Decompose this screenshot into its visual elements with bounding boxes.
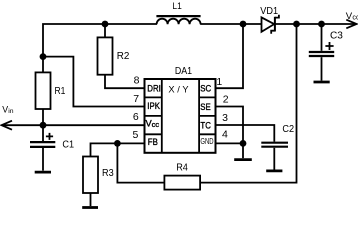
svg-text:DRI: DRI (147, 83, 161, 94)
svg-text:3: 3 (222, 112, 228, 124)
svg-text:IPK: IPK (147, 100, 160, 111)
resistor R1 (36, 57, 51, 126)
svg-text:X/Y: X/Y (168, 85, 191, 95)
wire pin 3 TC to C2 (216, 125, 275, 142)
IC left column separator (161, 79, 163, 153)
label Vcc (top right) (346, 11, 358, 22)
IC pin labels left (147, 83, 161, 148)
svg-text:R2: R2 (117, 51, 130, 62)
svg-text:7: 7 (133, 93, 139, 105)
svg-text:C1: C1 (62, 139, 74, 151)
label Vin (2, 105, 14, 116)
wire L1 to VD1 (200, 23, 261, 25)
IC left cell dividers (145, 97, 162, 134)
svg-text:SC: SC (200, 83, 211, 94)
svg-text:1: 1 (216, 76, 222, 88)
C3 plus sign (325, 42, 333, 50)
C1 plus sign (46, 133, 53, 140)
IC right cell dividers (199, 97, 215, 134)
wire VD1 to Vcc arrow (275, 23, 356, 25)
ground (pin 4) (234, 158, 252, 161)
resistor R2 (98, 24, 145, 88)
svg-text:R1: R1 (55, 85, 66, 97)
node junction Vin/R1/C1 (40, 122, 47, 129)
ground (C1) (35, 171, 51, 174)
svg-text:GND: GND (200, 138, 213, 146)
svg-text:FB: FB (148, 136, 158, 147)
svg-text:C2: C2 (282, 123, 294, 135)
node junction R2 top (102, 21, 109, 28)
resistor R3 (83, 157, 98, 207)
svg-text:C3: C3 (330, 30, 343, 41)
svg-text:R4: R4 (176, 162, 188, 174)
svg-text:in: in (8, 108, 14, 115)
node junction R1 top (40, 53, 47, 60)
resistor R4 (164, 176, 200, 190)
ground (R3) (82, 206, 98, 209)
IC right column separator (198, 79, 200, 153)
wire FB line pin 5 to R3 (91, 143, 145, 156)
ground (C3) (314, 81, 330, 84)
wire pin 4 GND (216, 142, 244, 144)
wire Vin rail to pin 6 (3, 124, 145, 126)
svg-text:TC: TC (200, 120, 210, 131)
svg-text:VD1: VD1 (260, 6, 278, 18)
svg-text:6: 6 (133, 111, 139, 123)
wire R1-junction to IPK pin 7 (43, 57, 145, 107)
capacitor C1 (electrolytic) (30, 125, 55, 170)
node junction L1/VD1/pin1 (240, 21, 247, 28)
IC label Vcc pin 6 (146, 119, 160, 129)
svg-text:L1: L1 (172, 0, 181, 11)
svg-text:cc: cc (352, 12, 358, 21)
svg-text:SE: SE (200, 101, 211, 112)
IC DA1 outline (145, 79, 216, 153)
node junction pin4/pin2/gnd (240, 140, 247, 147)
node junction output/feedback (293, 21, 300, 28)
svg-text:2: 2 (223, 94, 229, 106)
capacitor C2 (261, 143, 288, 170)
svg-text:cc: cc (152, 120, 160, 129)
svg-text:R3: R3 (102, 168, 114, 180)
svg-text:8: 8 (134, 74, 140, 86)
node junction C3 (318, 21, 325, 28)
wire FB node down to R4 (117, 143, 164, 182)
node junction FB/R4 (114, 140, 121, 147)
wire pin 2 SE down to gnd node (216, 107, 244, 144)
diode VD1 (Schottky) (262, 15, 279, 34)
Vin input arrow (2, 121, 12, 130)
capacitor C3 (electrolytic) (309, 24, 334, 81)
svg-text:DA1: DA1 (175, 65, 192, 77)
ground (C2) (266, 169, 282, 172)
wire pin 1 SC up to rail (216, 24, 244, 88)
svg-text:5: 5 (132, 129, 138, 141)
wire gnd node down (242, 143, 244, 158)
Vcc output arrow (346, 20, 356, 29)
wire top rail left segment (corner to L1) (43, 24, 157, 57)
IC pin labels right (200, 83, 213, 147)
inductor L1 (156, 16, 200, 24)
wire R4 to output node (200, 24, 296, 183)
svg-text:4: 4 (222, 129, 228, 141)
